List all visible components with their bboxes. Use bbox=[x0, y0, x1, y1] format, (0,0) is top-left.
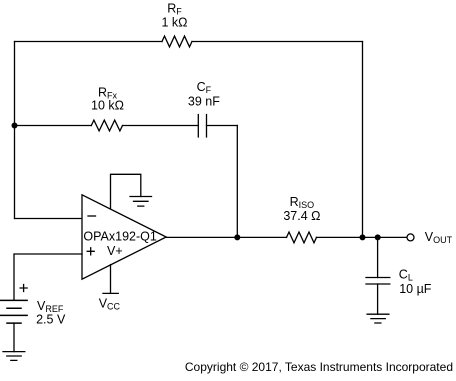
VCC terminal bar bbox=[103, 292, 118, 294]
svg-text:2.5 V: 2.5 V bbox=[36, 312, 66, 326]
svg-text:37.4 Ω: 37.4 Ω bbox=[283, 209, 320, 223]
svg-text:V+: V+ bbox=[107, 244, 123, 258]
wire inverting input bbox=[15, 218, 83, 220]
svg-text:10 µF: 10 µF bbox=[399, 282, 432, 296]
svg-text:RISO: RISO bbox=[290, 195, 315, 210]
svg-text:10 kΩ: 10 kΩ bbox=[91, 99, 124, 113]
battery plus mark bbox=[20, 285, 27, 292]
svg-text:CF: CF bbox=[197, 80, 212, 95]
ground battery bbox=[3, 352, 25, 361]
battery V1 plates bbox=[1, 300, 27, 323]
junction node C (RF rail / output) bbox=[360, 234, 366, 240]
wire second row left bbox=[15, 125, 92, 127]
wire CF to corner bbox=[207, 125, 238, 127]
wire right rail bbox=[362, 42, 364, 238]
wire noninverting input bbox=[14, 254, 82, 300]
svg-text:RF: RF bbox=[167, 2, 182, 17]
op-amp V- supply pin wire to ground bbox=[111, 174, 141, 209]
wire CL to ground bbox=[377, 284, 379, 314]
wire top feedback left segment bbox=[15, 41, 163, 43]
wire CL branch upper bbox=[377, 237, 379, 277]
capacitor C2 CL plates bbox=[366, 278, 390, 285]
wire RFx to CF bbox=[123, 125, 199, 127]
wire left rail bbox=[14, 42, 16, 219]
op-amp plus pin mark bbox=[87, 248, 94, 255]
capacitor C1 CF plates bbox=[198, 115, 206, 138]
resistor R1 RF zigzag bbox=[162, 36, 192, 47]
wire battery to ground bbox=[13, 323, 15, 352]
svg-text:39 nF: 39 nF bbox=[188, 94, 220, 108]
junction node A (left rail / RFx row) bbox=[12, 123, 18, 129]
wire top feedback right segment bbox=[192, 41, 363, 43]
terminal VOUT circle bbox=[407, 234, 414, 241]
svg-text:CL: CL bbox=[399, 268, 413, 283]
op-amp V+ supply pin wire bbox=[110, 265, 112, 294]
svg-text:Copyright © 2017, Texas Instru: Copyright © 2017, Texas Instruments Inco… bbox=[185, 360, 453, 374]
resistor R2 RFx zigzag bbox=[91, 120, 122, 131]
op-amp U1 triangle bbox=[82, 195, 166, 279]
junction node B (CF branch / output) bbox=[234, 234, 240, 240]
ground CL bbox=[367, 314, 389, 323]
svg-text:VOUT: VOUT bbox=[425, 230, 453, 245]
op-amp minus pin mark bbox=[88, 215, 96, 217]
wire op-amp output bbox=[166, 236, 287, 238]
resistor R3 RISO zigzag bbox=[287, 232, 317, 243]
wire corner down to output node bbox=[236, 126, 238, 238]
svg-text:1 kΩ: 1 kΩ bbox=[161, 16, 187, 30]
junction node D (CL branch / output) bbox=[375, 234, 381, 240]
svg-text:VCC: VCC bbox=[99, 297, 121, 312]
wire RISO to VOUT terminal bbox=[317, 236, 407, 238]
svg-text:OPAx192-Q1: OPAx192-Q1 bbox=[83, 230, 156, 244]
ground op-amp V- bbox=[130, 197, 152, 207]
